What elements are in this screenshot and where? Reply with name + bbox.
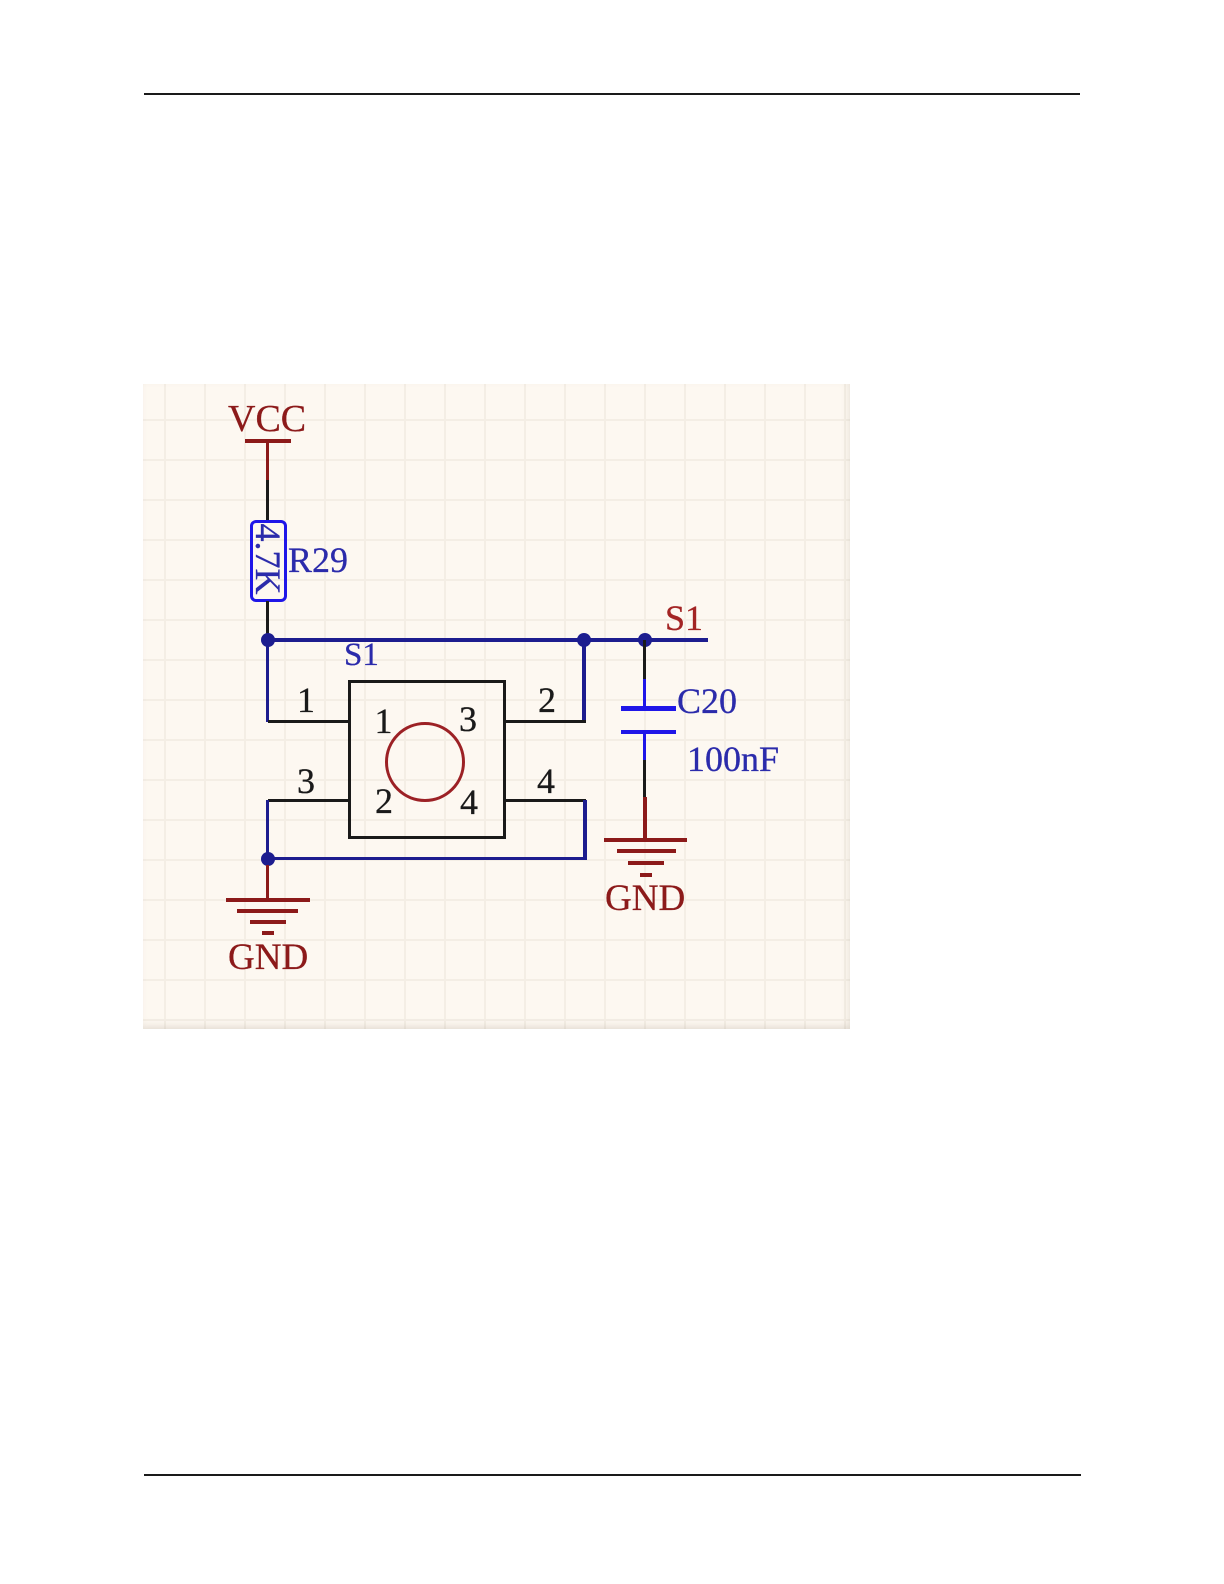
wire right vertical (pin 4 down) (583, 800, 586, 859)
ground GND label right (605, 880, 685, 917)
pin number 3 (outer) (297, 763, 315, 799)
pin 3 wire (268, 799, 348, 802)
net label S1 (665, 600, 703, 636)
wire bottom horizontal (266, 857, 587, 860)
resistor R29 body (250, 520, 287, 602)
switch S1 body (348, 680, 506, 839)
pin number 1 (inner) (375, 703, 393, 739)
wire left vertical upper (junction A to pin 1) (266, 640, 269, 722)
pin number 3 (inner) (459, 701, 477, 737)
junction D (left bottom) (261, 852, 275, 866)
switch S1 button circle (385, 722, 465, 802)
wire capacitor to ground (black) (643, 760, 646, 797)
junction C (cap branch) (638, 633, 652, 647)
pin 4 wire (506, 799, 586, 802)
power VCC stem (266, 441, 270, 480)
capacitor C20 bottom plate (621, 730, 676, 734)
wire capacitor to ground (red) (643, 797, 647, 840)
capacitor branch wire (junction C down, black) (643, 640, 646, 679)
resistor R29 designator (288, 542, 348, 578)
wire left vertical lower (pin 3 to junction D) (266, 800, 269, 859)
switch S1 designator (344, 639, 379, 672)
wire resistor to junction (266, 601, 269, 639)
resistor R29 value 4.7K (250, 524, 286, 595)
ground GND label left (228, 939, 308, 976)
pin 1 wire (268, 720, 348, 723)
junction B (pin2 branch) (577, 633, 591, 647)
pin 2 wire (506, 720, 586, 723)
capacitor C20 bottom lead (643, 734, 646, 760)
ground symbol left bar2 (237, 909, 298, 913)
wire junction D to ground (266, 865, 270, 898)
ground symbol right bar2 (617, 849, 677, 853)
ground symbol right bar3 (628, 861, 664, 865)
bottom horizontal rule (144, 1474, 1081, 1476)
ground symbol left bar4 (262, 931, 274, 935)
ground symbol left bar3 (250, 920, 286, 924)
pin number 1 (outer) (297, 682, 315, 718)
junction A (left top) (261, 633, 275, 647)
pin number 4 (inner) (460, 784, 478, 820)
capacitor C20 top lead (643, 679, 646, 707)
ground symbol right bar1 (604, 838, 687, 842)
wire pin2 vertical (junction B down) (582, 640, 585, 722)
power VCC bar symbol (245, 439, 291, 443)
ground symbol left bar1 (226, 898, 310, 902)
capacitor C20 designator (677, 683, 737, 719)
pin number 4 (outer) (537, 763, 555, 799)
wire top horizontal net S1 (266, 638, 708, 641)
pin number 2 (inner) (375, 783, 393, 819)
wire VCC to resistor (266, 480, 269, 521)
ground symbol right bar4 (640, 873, 652, 877)
capacitor C20 top plate (621, 706, 676, 710)
top horizontal rule (144, 93, 1080, 95)
power VCC label (228, 400, 306, 438)
pin number 2 (outer) (538, 682, 556, 718)
capacitor C20 value 100nF (687, 741, 779, 777)
